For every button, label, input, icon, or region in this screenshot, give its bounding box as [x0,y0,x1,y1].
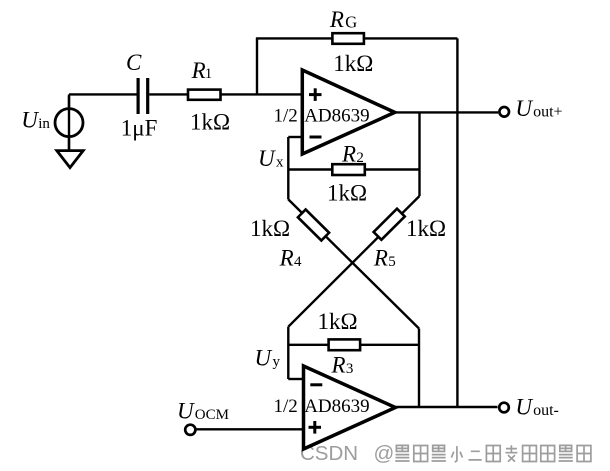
svg-text:out-: out- [533,402,559,419]
svg-text:U: U [177,399,195,424]
terminal Uout+ [499,107,509,117]
svg-text:in: in [38,116,50,132]
wire left rail lower [287,327,289,379]
watermark CSDN text [300,442,394,465]
svg-text:AD8639: AD8639 [304,396,369,417]
op-amp U1 minus symbol [310,136,322,139]
wire bottom output [395,406,497,408]
svg-text:R: R [279,246,294,271]
wire R3 horizontal [288,344,419,346]
wire RG top horizontal [256,37,458,39]
svg-text:1kΩ: 1kΩ [318,309,358,334]
svg-text:G: G [345,12,357,31]
svg-text:1: 1 [205,66,213,82]
svg-text:R: R [341,142,356,167]
svg-text:R: R [373,246,388,271]
svg-text:3: 3 [346,361,354,377]
svg-text:1kΩ: 1kΩ [406,216,446,241]
label UOCM [177,399,229,424]
resistor RG box [332,33,364,44]
svg-text:U: U [258,146,276,171]
label R2 [341,142,364,167]
source circle Uin [55,109,83,137]
label R4 [279,246,302,271]
svg-text:C: C [126,50,142,75]
svg-text:U: U [515,96,533,121]
wire UOCM horizontal [197,428,305,430]
ground [57,151,83,168]
svg-text:U: U [515,395,533,420]
op-amp U1 text 1/2 AD8639 [274,105,370,126]
svg-text:x: x [276,154,284,170]
svg-text:1kΩ: 1kΩ [333,51,373,76]
svg-text:R: R [191,58,206,83]
wire top output [395,111,498,113]
capacitor C plates [138,78,148,114]
terminal UOCM [185,425,195,435]
watermark CJK mimic glyphs [395,445,591,462]
svg-text:out+: out+ [533,103,562,120]
svg-text:AD8639: AD8639 [304,105,369,126]
wire diagonal R5 [288,196,419,327]
svg-text:5: 5 [388,254,396,270]
svg-text:R: R [331,353,346,378]
wire through source circle [68,96,70,150]
wire R2 horizontal [288,168,419,170]
svg-text:U: U [21,108,39,133]
label R5 [373,246,396,271]
wire U2 inverting input [288,378,304,380]
op-amp U2 triangle [304,366,396,449]
op-amp U2 text 1/2 AD8639 [274,396,370,417]
label Uout- [515,395,558,420]
node Uin label [21,108,50,133]
resistor R5 box [374,209,405,240]
wire diagonal R4 [288,199,419,328]
svg-text:1μF: 1μF [121,116,158,141]
op-amp U2 plus symbol [309,421,322,434]
svg-text:U: U [255,346,273,371]
svg-text:1kΩ: 1kΩ [190,109,230,134]
wire left rail upper [287,137,289,199]
wire capacitor to op-amp [149,93,302,95]
node Ux label [258,146,284,171]
svg-text:1kΩ: 1kΩ [327,181,367,206]
op-amp U1 triangle [302,70,395,154]
wire R2 right vertical [418,112,420,196]
svg-text:OCM: OCM [195,407,229,423]
wire right rail [456,38,458,407]
svg-text:R: R [329,7,344,32]
resistor R1 box [188,90,221,100]
wire source vertical [68,94,70,150]
resistor R2 box [332,164,365,175]
svg-text:1/2: 1/2 [274,105,298,126]
svg-text:2: 2 [356,150,364,166]
terminal Uout- [499,403,509,413]
node Uy label [255,346,281,371]
label RG [329,7,357,32]
svg-text:1kΩ: 1kΩ [250,216,290,241]
label R3 [331,353,354,378]
op-amp U1 plus symbol [309,88,322,101]
svg-text:y: y [273,354,281,370]
label Uout+ [515,96,562,121]
label R1 [191,58,213,83]
svg-text:4: 4 [294,254,302,270]
wire RG left vertical [256,38,258,95]
resistor R3 box [329,339,361,350]
wire input left of capacitor [69,93,137,95]
svg-text:@: @ [374,442,395,465]
svg-text:1/2: 1/2 [274,396,298,417]
op-amp U2 minus symbol [310,383,322,386]
wire U1 inverting input [288,136,303,138]
wire right rail lower [418,329,420,407]
resistor R4 box [298,209,329,240]
